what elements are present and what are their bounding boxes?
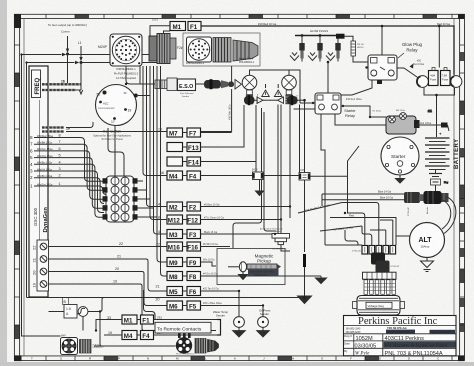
panel terminal strip 19-22: [32, 240, 49, 291]
To Gen output note: [48, 23, 87, 34]
F2 group part labels: [186, 58, 255, 65]
M4 F4 row: [160, 171, 254, 180]
alternator connector pair: [404, 191, 449, 216]
GSC 300 vertical label: [33, 207, 38, 226]
wires from terminals 19-22 to M column: [49, 247, 217, 331]
M4 F4 box bottom: [104, 331, 217, 340]
ground below B-D8: [256, 180, 264, 196]
engine block right side wires to bus: [138, 181, 158, 217]
address row: [346, 327, 456, 334]
inline diode component: [196, 79, 242, 89]
connector M24P circular: [98, 34, 142, 66]
bottom connector group 2 cone: [176, 340, 219, 356]
gen feed arrow 1: [66, 36, 69, 53]
F2 conical backshell: [233, 40, 258, 61]
F2 ribbed shell: [213, 38, 231, 63]
M1 box bottom: [96, 315, 217, 331]
GSC300 DynaGen controller panel box: [29, 66, 48, 297]
glow feed resistor bar: [351, 41, 364, 56]
battery plates: [420, 123, 450, 170]
M1 box top: [170, 22, 186, 32]
glow relay bottom stub wire: [341, 80, 382, 95]
F14 row: [167, 157, 256, 166]
bottom connector group 2 ribbed shell: [195, 339, 206, 354]
fuse feed from top bus: [438, 26, 440, 68]
bottom ruler zone letters: [31, 357, 440, 361]
striped wire pair to key area: [42, 122, 93, 132]
connector F2 group box: [177, 33, 260, 66]
gen feed arrow 2: [79, 46, 82, 62]
glow plug 2: [308, 34, 323, 61]
yellow wire diagonal from solenoid: [310, 146, 365, 246]
junction node dots: [66, 53, 83, 65]
M24P part number labels: [114, 68, 139, 80]
battery negative sub symbol: [429, 170, 449, 192]
pickup ground: [239, 272, 248, 280]
starter ground: [396, 175, 405, 183]
left margin return wire 1: [22, 53, 67, 336]
bottom connector group 2 round 4-pin: [176, 337, 192, 353]
thick splice on bus: [303, 254, 306, 267]
main battery bus wire top: [201, 22, 454, 75]
connector B-D8: [252, 169, 299, 180]
top bus wire label: [152, 18, 158, 22]
alternator ground: [421, 258, 434, 272]
central vertical bus wires: [233, 100, 305, 252]
stack striped legs: [364, 280, 396, 295]
starter solenoid: [372, 110, 420, 134]
M9 F9 row: [167, 258, 216, 267]
stack plug black 2: [376, 261, 400, 274]
warning triangle 1: [262, 90, 270, 97]
M8 F8 row: [167, 272, 321, 281]
solenoid to battery link: [416, 123, 449, 132]
magnetic pickup sensor: [228, 262, 281, 272]
M5 F6 row: [156, 285, 240, 296]
M12 F12 row: [158, 215, 281, 224]
glow plug 1: [290, 34, 305, 61]
panel lamp 1: [242, 75, 259, 104]
stack legs to regulator: [325, 203, 393, 246]
wire 33 run: [27, 298, 305, 312]
bottom connector group 1 round 4-pin: [61, 336, 78, 355]
diode assembly 1: [244, 95, 263, 105]
fuse holder 40A: [417, 68, 438, 88]
by row: [344, 349, 443, 357]
panel lamp 2: [282, 75, 299, 104]
ground mid large: [298, 290, 312, 304]
voltage regulator: [353, 296, 405, 316]
air chamber resistance heater: [260, 228, 290, 252]
1.5A breaker fuse: [49, 298, 88, 319]
water temp sender: [213, 291, 246, 337]
red wire to alternator: [330, 213, 396, 245]
remote contacts bracket: [217, 320, 221, 336]
lamp top connection wires: [250, 70, 301, 103]
DynaGen vertical label: [43, 207, 49, 233]
bottom connector group 2 pin stubs: [178, 334, 191, 339]
oil press sender: [257, 306, 271, 338]
FREQ meter box: [32, 70, 41, 98]
fuse to battery feed: [424, 88, 455, 137]
alternator output arc: [396, 197, 456, 237]
stack bottom pin row: [363, 272, 397, 279]
ribbed backshell connector: [149, 34, 176, 64]
starter relay: [312, 93, 344, 114]
key switch: [96, 85, 138, 126]
glow bus splice connector: [336, 34, 368, 62]
black 14ga wire label: [320, 225, 362, 231]
ground f8 wire: [316, 276, 327, 284]
wire fan from panel rows to engine connector: [62, 138, 107, 218]
bottom connector group 1 ribbed shell: [80, 340, 104, 354]
date row: [344, 341, 455, 349]
glow plug relay: [365, 55, 397, 80]
M6 F5 row: [156, 298, 260, 311]
wire 26 vertical with label: [201, 66, 232, 132]
F2 round connector: [187, 37, 212, 62]
left margin return wire 2: [27, 61, 80, 298]
optional note dark highlight: [248, 269, 279, 277]
F1 box top: [188, 22, 201, 32]
vertical harness bus wires: [143, 66, 167, 320]
gen bus wires: [68, 26, 171, 90]
M2 F2 row: [156, 202, 290, 211]
connector B-D8 second: [299, 169, 310, 180]
glow plug 3: [326, 34, 341, 61]
magnetic pickup box: [217, 249, 285, 285]
key switch wires: [66, 66, 167, 176]
engine connector stack top row: [352, 246, 396, 255]
F13 row: [167, 105, 244, 152]
FREQ striped input wire 2: [42, 90, 83, 94]
panel terminal numbers 8..1: [30, 135, 33, 189]
company name: [358, 316, 438, 327]
glow plug relay caption: [398, 42, 423, 58]
starter relay wires: [294, 62, 387, 245]
To Remote Contacts label box: [155, 322, 211, 333]
fuse holder 7.5A: [441, 68, 462, 88]
M16 F16 row: [156, 242, 230, 251]
starter motor: [381, 137, 419, 175]
M7 F7 row: [167, 128, 232, 137]
engine harness connector block: [103, 176, 138, 222]
key switch caption: [93, 130, 132, 142]
title block frame: [344, 316, 457, 356]
panel wires rows 8..1 with gauge labels: [34, 138, 62, 187]
diode assembly 2: [263, 95, 305, 105]
M3 F3 row: [158, 230, 272, 239]
stack plug black 1: [371, 253, 385, 265]
dwg number row: [344, 334, 424, 342]
starter relay caption: [344, 109, 356, 118]
glow plug bus: [295, 29, 336, 36]
BATTERY label: [454, 139, 460, 169]
alternator plug wires: [322, 190, 404, 206]
node L1 label: [78, 41, 82, 45]
purple wire diagonal label: [298, 203, 342, 214]
warning triangle 2: [274, 90, 282, 97]
E.S.O fuel solenoid: [155, 78, 196, 98]
alternator: [410, 223, 445, 258]
FREQ striped input wire 1: [42, 80, 81, 85]
wire from breaker to bottom connectors: [83, 312, 176, 347]
relay to fuse wire: [397, 60, 425, 80]
